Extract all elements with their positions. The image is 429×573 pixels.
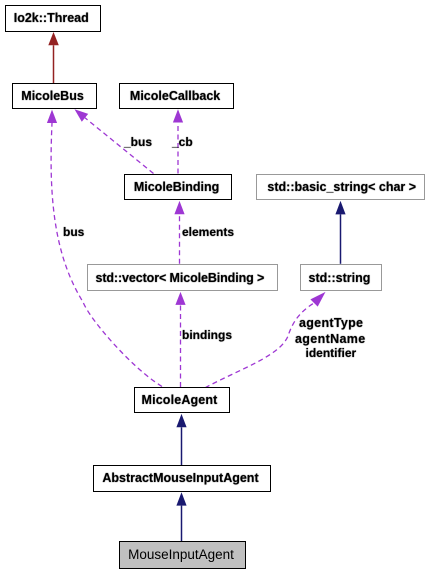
- label bus: [63, 225, 84, 239]
- label bindings: [182, 328, 232, 342]
- node std::vector< MicoleBinding >: [87, 264, 278, 292]
- node AbstractMouseInputAgent: [93, 465, 271, 492]
- label _bus: [124, 135, 152, 149]
- label agentType: [299, 316, 363, 330]
- node MouseInputAgent (current class, gray): [119, 541, 246, 568]
- wire: protected inheritance edge MicoleBus -> Io2k::Thread: [48, 32, 59, 83]
- label identifier: [306, 346, 357, 360]
- wire: usage edge MicoleAgent -> std::string (agentType agentName identifier): [205, 292, 326, 388]
- label elements: [182, 225, 234, 239]
- wire: usage edge MicoleAgent -> MicoleBus (bus): [47, 110, 162, 387]
- wire: public inheritance edge AbstractMouseInputAgent -> MicoleAgent: [176, 414, 186, 465]
- wire: usage edge MicoleAgent -> std::vector (bindings): [175, 292, 185, 387]
- label _cb: [172, 135, 193, 149]
- node std::basic_string< char >: [256, 174, 424, 201]
- wire: usage edge MicoleBinding -> MicoleCallback (_cb): [173, 109, 183, 173]
- label agentName: [295, 332, 366, 346]
- node MicoleBinding: [124, 174, 233, 201]
- node MicoleAgent: [134, 387, 230, 413]
- node Io2k::Thread: [5, 5, 101, 32]
- wire: public inheritance edge std::string -> std::basic_string: [335, 201, 345, 264]
- node MicoleBus: [12, 83, 97, 109]
- wire: public inheritance edge MouseInputAgent -> AbstractMouseInputAgent: [176, 492, 186, 541]
- node std::string: [300, 264, 382, 292]
- wire: usage edge MicoleBinding -> MicoleBus (_bus): [75, 109, 154, 173]
- wire: usage edge std::vector -> MicoleBinding (elements): [174, 201, 184, 264]
- node MicoleCallback: [119, 83, 234, 109]
